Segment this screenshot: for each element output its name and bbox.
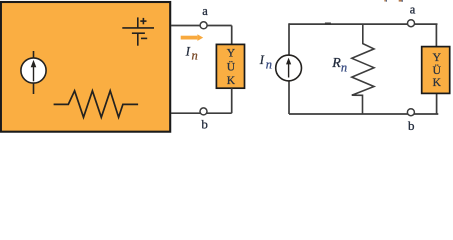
svg-text:Y: Y: [227, 48, 236, 60]
svg-text:a: a: [202, 4, 208, 18]
svg-text:a: a: [410, 2, 416, 16]
svg-text:n: n: [192, 49, 198, 63]
svg-text:n: n: [341, 60, 347, 74]
svg-text:Y: Y: [433, 52, 442, 64]
svg-text:I: I: [185, 45, 191, 59]
svg-text:n: n: [266, 57, 272, 71]
svg-text:Ü: Ü: [227, 59, 236, 73]
svg-text:b: b: [201, 116, 208, 131]
svg-text:K: K: [433, 77, 442, 89]
svg-text:K: K: [227, 75, 236, 87]
svg-text:Ü: Ü: [433, 63, 442, 77]
svg-text:b: b: [408, 118, 415, 133]
svg-text:R: R: [331, 56, 341, 71]
svg-text:I: I: [259, 53, 265, 67]
